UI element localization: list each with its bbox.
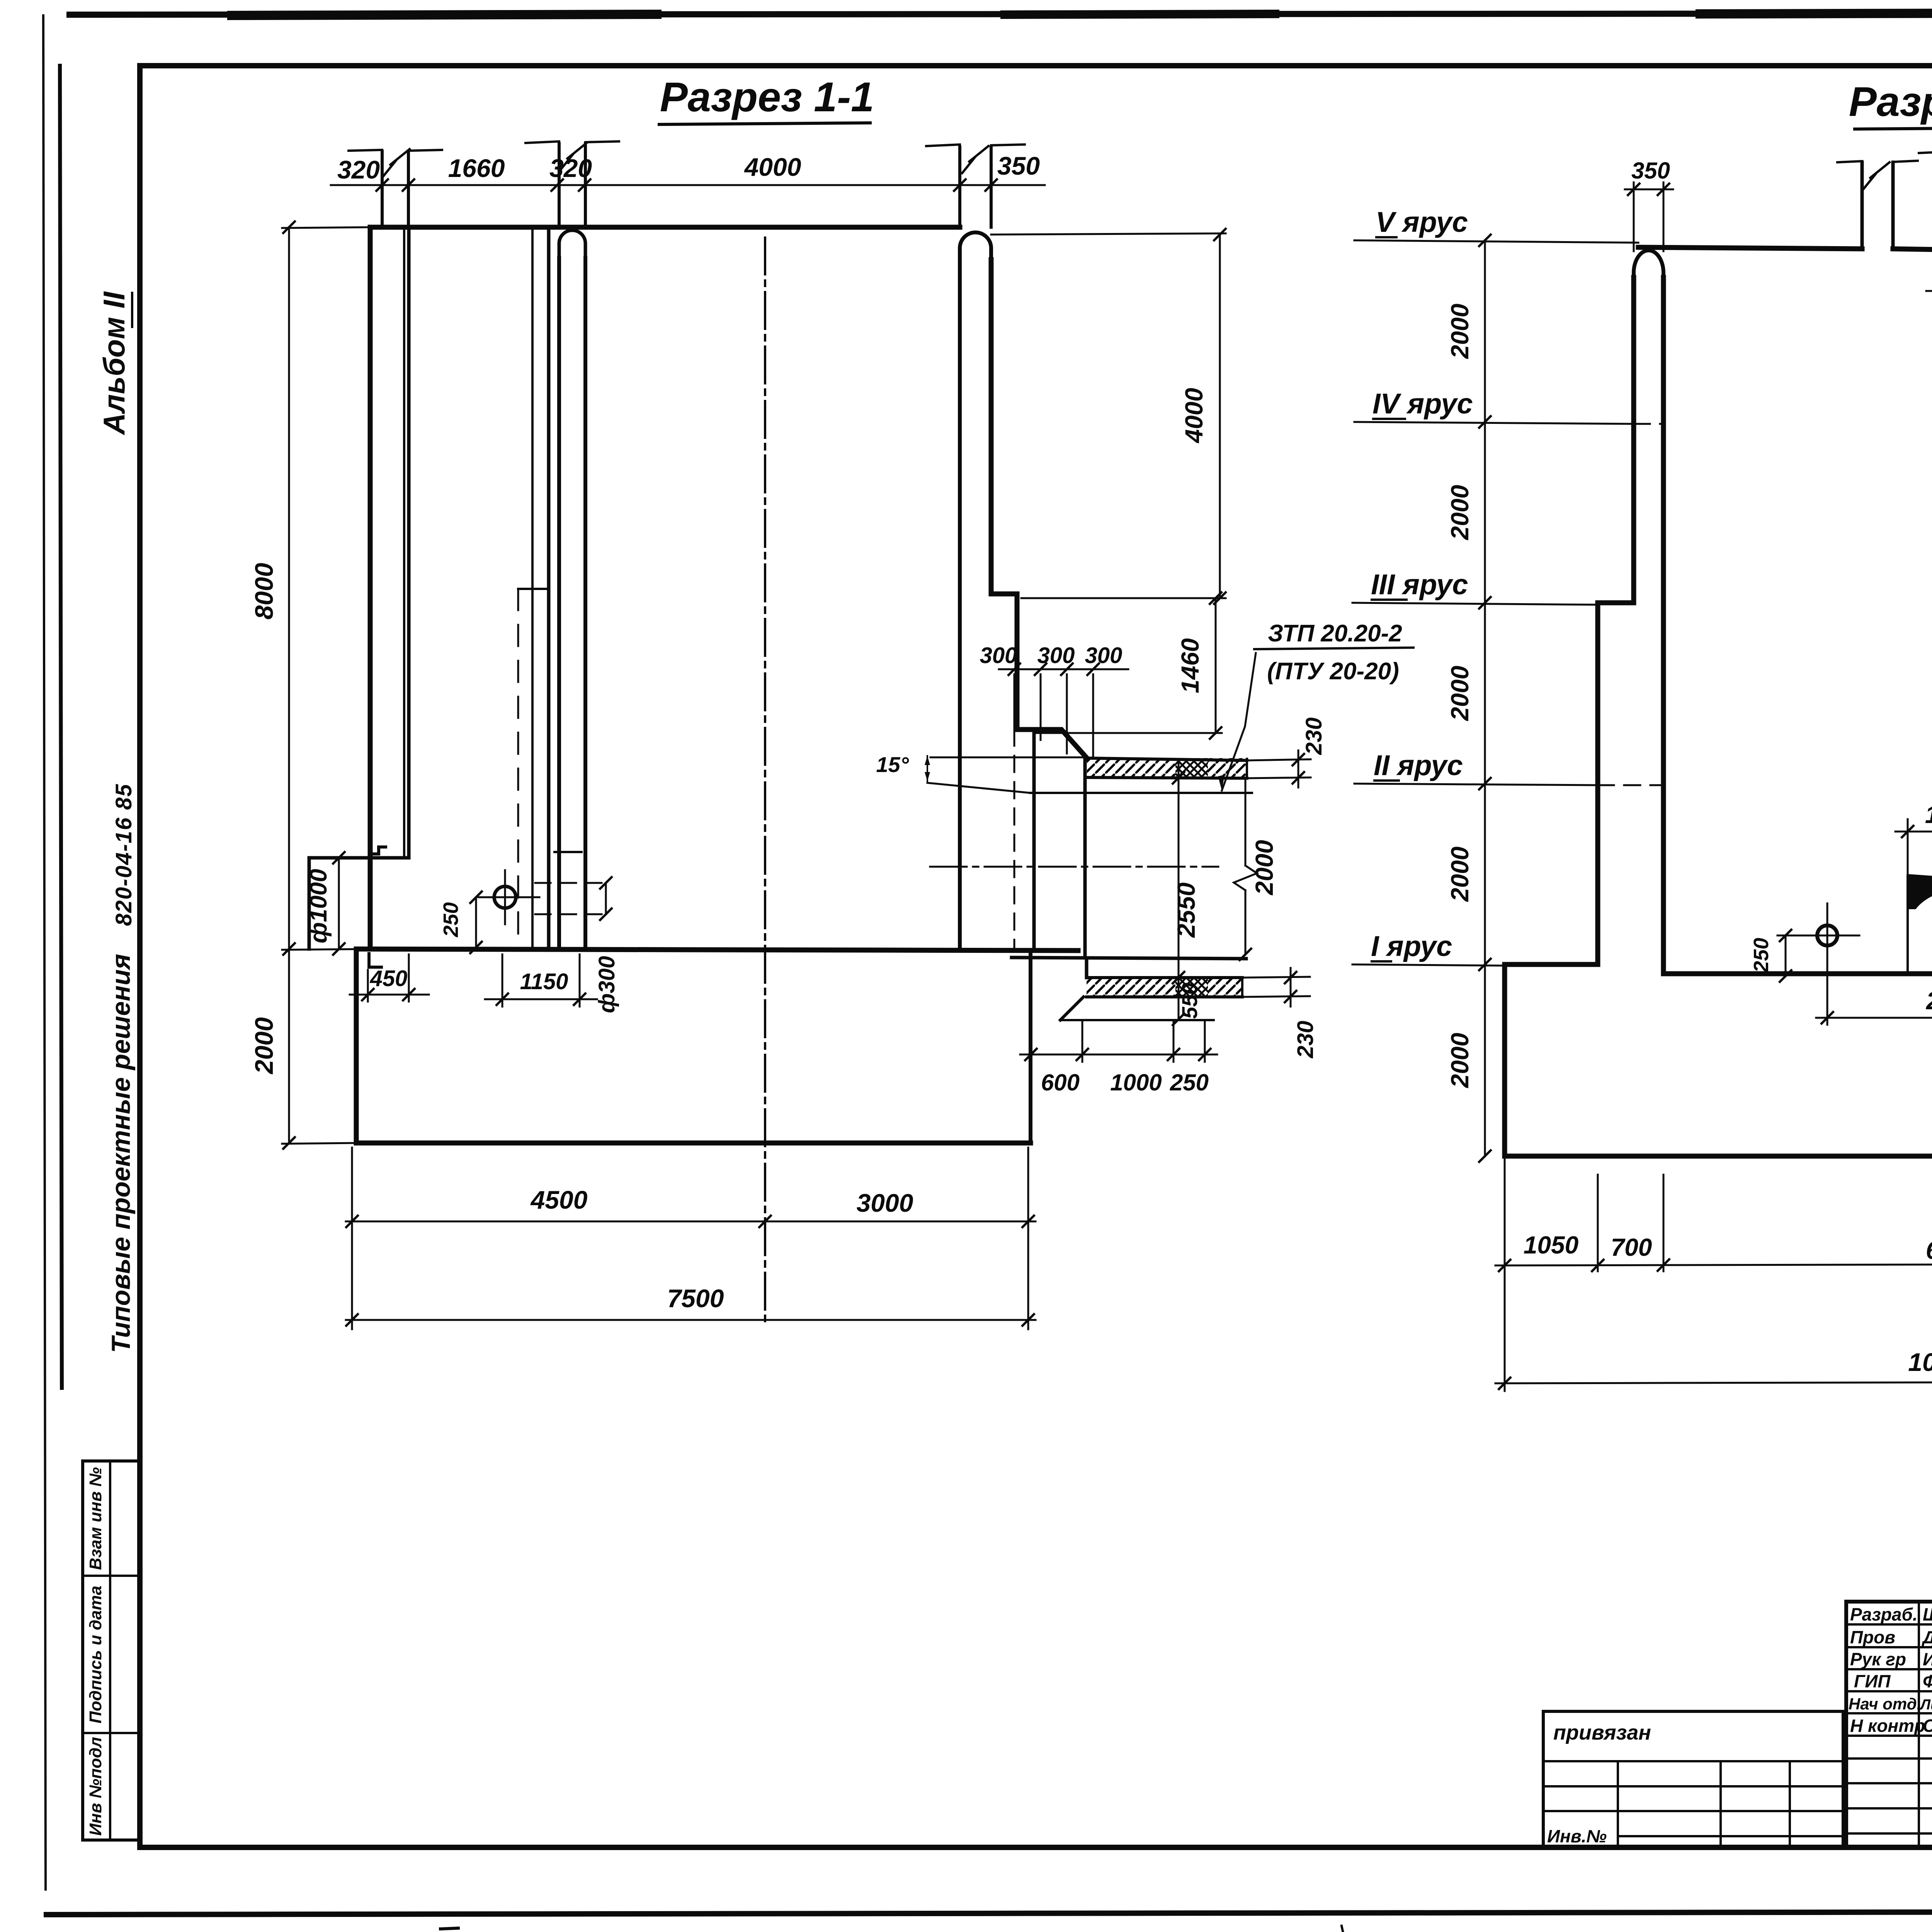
svg-text:V ярус: V ярус (1376, 206, 1468, 238)
pipe sleeve arc wall2 (559, 230, 585, 258)
pipe far-wall opening edges (1032, 730, 1036, 949)
left wall inner face (1661, 277, 1666, 974)
svg-text:600: 600 (1041, 1070, 1080, 1095)
svg-text:III ярус: III ярус (1371, 568, 1468, 600)
svg-text:Взам инв №: Взам инв № (86, 1467, 105, 1570)
floor slab top (356, 949, 1078, 951)
svg-text:2000: 2000 (1446, 666, 1474, 721)
svg-text:Рук гр: Рук гр (1850, 1649, 1906, 1669)
svg-text:1050: 1050 (1524, 1231, 1578, 1259)
dim 250 (1785, 935, 1787, 976)
svg-text:2000: 2000 (1446, 1033, 1474, 1088)
dim f1000 (338, 858, 340, 949)
dim 550 (1172, 971, 1185, 984)
ladder rung (554, 851, 582, 853)
svg-text:1000: 1000 (1925, 801, 1932, 828)
svg-text:2000: 2000 (250, 1017, 278, 1075)
left wall arc top (1634, 250, 1663, 278)
dim 8000 (288, 227, 290, 949)
svg-text:Нач отд.: Нач отд. (1849, 1695, 1921, 1713)
G-RIGHT-DRAWING (1352, 78, 1932, 1391)
G-LEFT-MARGIN (83, 291, 140, 1840)
footing bottom (1505, 1154, 1932, 1159)
svg-text:820-04-16 85: 820-04-16 85 (111, 783, 136, 926)
svg-text:Типовые проектные решения: Типовые проектные решения (106, 954, 136, 1353)
baffle wall edges (1906, 876, 1909, 974)
bottom outer border (46, 1911, 1932, 1915)
svg-text:ГИП: ГИП (1854, 1671, 1891, 1691)
dim 2800 (1816, 1017, 1932, 1019)
svg-text:3000: 3000 (857, 1189, 913, 1217)
dim 230 lower right (1242, 977, 1310, 978)
svg-text:Разраб.: Разраб. (1850, 1604, 1918, 1624)
pipe axis centerline (930, 866, 1218, 868)
svg-text:4000: 4000 (1180, 388, 1208, 444)
wall break symbol 1 (381, 151, 384, 227)
svg-text:Девяшин: Девяшин (1921, 1627, 1932, 1647)
top slab line segments (1638, 247, 1862, 249)
lower pipe wall hatched band (1085, 959, 1088, 978)
svg-text:II ярус: II ярус (1374, 749, 1463, 781)
wall break symbol 2 (558, 144, 561, 227)
svg-text:Штепа: Штепа (1923, 1604, 1932, 1624)
wall break symbol 3 (958, 147, 961, 227)
dim 600 1000 250 (1020, 1054, 1217, 1056)
dim 1150 (485, 998, 597, 1000)
svg-text:6500: 6500 (1926, 1236, 1932, 1264)
tier dimension line 2000 x4 (1484, 240, 1486, 1156)
hidden edge dashed (1014, 730, 1015, 949)
chamber centerline (764, 238, 766, 1325)
svg-text:(ПТУ 20-20): (ПТУ 20-20) (1267, 658, 1399, 685)
svg-text:IV ярус: IV ярус (1372, 388, 1473, 420)
bottom dimension line 1050 700 6500 700 1050 (1495, 1264, 1932, 1265)
svg-text:8000: 8000 (250, 563, 278, 619)
left wall outer line (368, 227, 373, 949)
svg-text:350: 350 (997, 151, 1040, 180)
svg-text:320: 320 (337, 155, 380, 184)
dim 2550 (1178, 759, 1180, 1019)
svg-text:Пров: Пров (1850, 1627, 1895, 1647)
pipe circle left (1817, 925, 1837, 946)
svg-text:2800: 2800 (1926, 987, 1932, 1015)
dim 450 (350, 994, 429, 996)
svg-text:350: 350 (1631, 158, 1670, 184)
upper pipe wall hatched band (1087, 758, 1175, 777)
right wall inner line (958, 260, 962, 949)
G-LEFT-DRAWING (250, 73, 1413, 1329)
dim 250 small (475, 897, 477, 947)
left wall inner lines (403, 227, 405, 858)
svg-text:1460: 1460 (1176, 638, 1204, 693)
title block top edge (1846, 1600, 1932, 1604)
svg-text:Сильченко: Сильченко (1923, 1716, 1932, 1736)
svg-text:1000: 1000 (1110, 1070, 1162, 1095)
left wall outer profile (1505, 277, 1634, 1156)
svg-text:300: 300 (980, 643, 1017, 668)
svg-text:Лисничевский: Лисничевский (1919, 1697, 1932, 1713)
svg-text:250: 250 (439, 902, 463, 937)
inventory stamp boxes bottom-left (83, 1459, 140, 1463)
svg-text:2000: 2000 (1446, 304, 1474, 359)
svg-text:300: 300 (1037, 643, 1075, 668)
dim 1460 (1215, 598, 1217, 733)
right wall outer with steps (991, 260, 1087, 758)
chamber floor (1663, 971, 1932, 976)
scan mark (440, 1928, 458, 1929)
svg-text:2550: 2550 (1172, 883, 1200, 938)
svg-text:230: 230 (1301, 718, 1327, 755)
svg-text:ф300: ф300 (594, 956, 619, 1013)
svg-text:2000: 2000 (1250, 840, 1278, 895)
dim 2000 left (288, 949, 290, 1143)
svg-text:Инв.№: Инв.№ (1547, 1826, 1607, 1846)
svg-text:ф1000: ф1000 (305, 869, 332, 944)
svg-text:Н контр: Н контр (1850, 1716, 1925, 1736)
svg-text:Франк: Франк (1923, 1671, 1932, 1691)
pipe f1000 top cap (309, 856, 409, 860)
svg-text:4000: 4000 (744, 153, 801, 181)
dim 350 risers (1926, 290, 1932, 292)
top page edge (70, 13, 1932, 15)
svg-text:Альбом II: Альбом II (97, 291, 131, 435)
svg-text:450: 450 (370, 966, 408, 991)
svg-text:300: 300 (1085, 643, 1122, 668)
svg-text:10000: 10000 (1908, 1348, 1932, 1376)
svg-text:2000: 2000 (1446, 847, 1474, 902)
pipe sleeve arc wall3 (960, 233, 991, 260)
svg-text:700: 700 (1611, 1233, 1652, 1261)
dim 350 left wall (1625, 189, 1673, 190)
svg-text:2000: 2000 (1446, 485, 1474, 540)
footing outline (354, 949, 359, 1143)
svg-text:250: 250 (1750, 938, 1773, 973)
dim 2000 pipe with break (1245, 778, 1247, 866)
dim 230 upper right (1247, 759, 1311, 760)
svg-text:250: 250 (1170, 1070, 1209, 1095)
dim 7500 (346, 1319, 1036, 1321)
dim 10000 (1495, 1381, 1932, 1383)
pipe circle f300 (494, 886, 516, 908)
dim 4000 right upper (991, 233, 1226, 235)
top dimension line (331, 184, 1045, 186)
svg-text:15°: 15° (876, 752, 909, 777)
svg-text:Подпись и дата: Подпись и дата (86, 1586, 105, 1724)
pipe interior top line (1030, 792, 1252, 794)
svg-text:550: 550 (1177, 983, 1202, 1019)
dim 4500 and 3000 (346, 1221, 1036, 1223)
small step notch below slab (369, 954, 381, 967)
G-TITLEBLOCK (1543, 1520, 1932, 1903)
left outer border (43, 15, 46, 1889)
ladder shaft lines (531, 227, 534, 949)
svg-text:7500: 7500 (667, 1284, 724, 1313)
signature table rows (1846, 1623, 1932, 1626)
privyazan table (1543, 1711, 1843, 1847)
15 degree slope leaders (930, 757, 1087, 759)
svg-text:1660: 1660 (448, 154, 505, 182)
hidden pipe lines dashed (535, 882, 606, 884)
svg-text:Инв №подл: Инв №подл (86, 1737, 105, 1836)
dim 1000 baffle top (1895, 831, 1932, 833)
left margin band line (60, 66, 62, 1388)
riser pair 1 (1861, 162, 1864, 249)
svg-text:4500: 4500 (530, 1185, 588, 1214)
svg-text:I ярус: I ярус (1371, 930, 1452, 962)
baffle black wedge (1908, 874, 1932, 909)
signature table verticals (1844, 1602, 1848, 1847)
dim 300 300 300 (999, 668, 1128, 670)
svg-text:1150: 1150 (520, 969, 568, 994)
svg-text:230: 230 (1293, 1021, 1318, 1059)
svg-text:ЗТП 20.20-2: ЗТП 20.20-2 (1268, 620, 1402, 647)
roof slab top line (370, 225, 960, 230)
svg-text:Разрез 3-3: Разрез 3-3 (1849, 78, 1932, 125)
svg-text:Разрез 1-1: Разрез 1-1 (660, 73, 874, 120)
wall notch (370, 847, 386, 854)
ladder shaft hidden edge (517, 589, 519, 949)
bedding diagonal and line (1060, 997, 1083, 1020)
svg-text:привязан: привязан (1553, 1721, 1651, 1744)
svg-text:Иоффе: Иоффе (1923, 1649, 1932, 1669)
